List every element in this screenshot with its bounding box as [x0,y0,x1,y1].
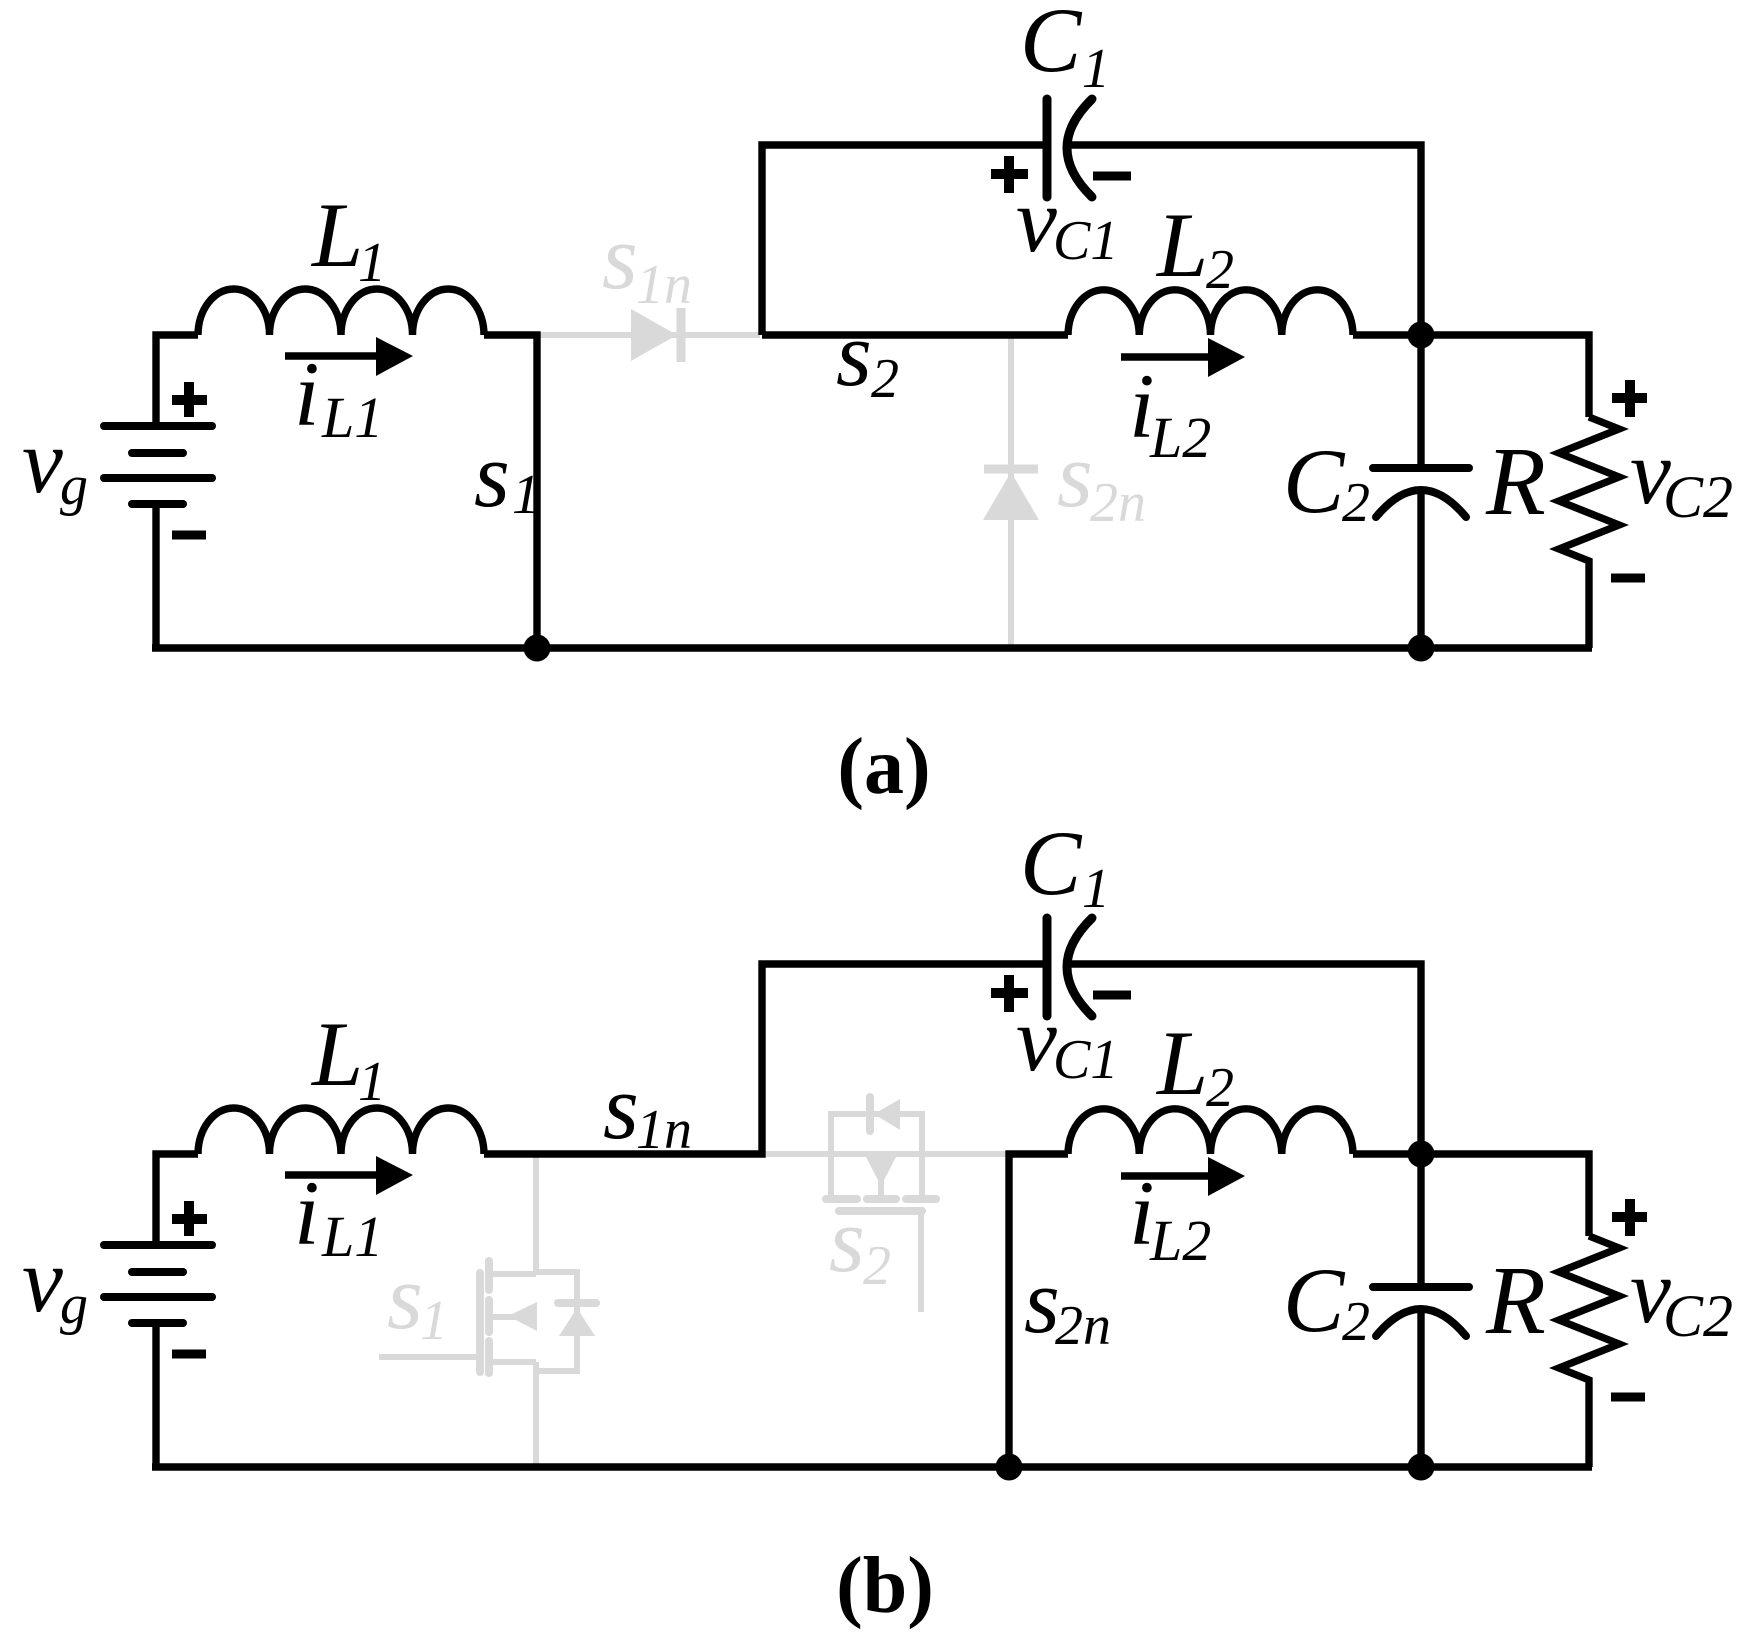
svg-text:C1: C1 [1053,210,1118,272]
svg-text:C2: C2 [1663,464,1733,530]
svg-text:i: i [294,343,320,445]
svg-text:s: s [829,1189,865,1291]
svg-text:v: v [22,1229,63,1331]
svg-text:1: 1 [1082,38,1110,100]
svg-text:C2: C2 [1663,1283,1733,1349]
svg-text:2: 2 [1206,1057,1234,1119]
svg-text:L: L [1155,194,1208,296]
svg-text:C: C [1020,0,1083,91]
svg-text:v: v [1016,988,1057,1090]
svg-text:1: 1 [1082,858,1110,920]
svg-text:v: v [22,410,63,512]
svg-text:L2: L2 [1149,405,1211,470]
svg-text:(a): (a) [837,723,930,811]
svg-text:s: s [1057,424,1093,526]
svg-text:2: 2 [871,348,899,410]
svg-text:2n: 2n [1090,472,1146,534]
svg-text:v: v [1016,169,1057,271]
svg-text:L1: L1 [321,385,383,450]
svg-text:R: R [1485,1247,1546,1355]
svg-text:s: s [474,424,510,526]
svg-text:2: 2 [1342,1291,1370,1353]
svg-text:1: 1 [420,1290,448,1352]
svg-text:2: 2 [1206,239,1234,301]
svg-text:L: L [1155,1012,1208,1114]
svg-text:C1: C1 [1053,1029,1118,1091]
svg-text:1: 1 [358,232,386,294]
svg-text:2: 2 [863,1235,891,1297]
svg-text:s: s [387,1246,423,1348]
svg-text:s: s [603,1056,639,1158]
svg-text:1n: 1n [636,1099,692,1161]
svg-text:L2: L2 [1149,1208,1211,1273]
svg-text:2: 2 [1342,472,1370,534]
svg-text:s: s [602,206,638,308]
svg-text:g: g [60,1274,88,1336]
svg-text:L: L [310,1003,363,1105]
svg-text:g: g [60,455,88,517]
svg-text:L1: L1 [321,1204,383,1269]
svg-text:C: C [1283,430,1346,532]
svg-text:C: C [1020,812,1083,914]
svg-text:C: C [1283,1249,1346,1351]
svg-text:i: i [294,1162,320,1264]
svg-text:s: s [836,303,872,405]
svg-text:(b): (b) [836,1542,934,1630]
svg-text:2n: 2n [1055,1295,1111,1357]
svg-text:R: R [1485,428,1546,536]
svg-text:1n: 1n [636,254,692,316]
svg-text:1: 1 [358,1051,386,1113]
svg-text:L: L [310,184,363,286]
svg-text:1: 1 [512,464,540,526]
